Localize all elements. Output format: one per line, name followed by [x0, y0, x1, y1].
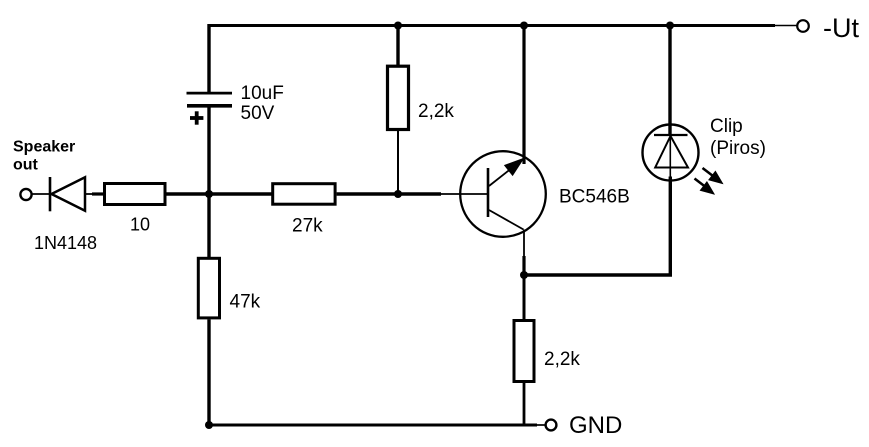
wire bottom rail to GND [209, 424, 546, 427]
svg-text:-Ut: -Ut [823, 13, 859, 43]
svg-text:2,2k: 2,2k [544, 349, 580, 370]
label GND [569, 412, 622, 439]
wire capacitor bottom lead [207, 106, 210, 194]
terminal -Ut [797, 20, 809, 32]
svg-text:Clip: Clip [710, 116, 743, 137]
node bottom-left corner dot [205, 421, 213, 429]
svg-text:BC546B: BC546B [559, 187, 630, 208]
svg-text:GND: GND [569, 412, 622, 439]
transistor Q1 BC546B [460, 151, 546, 237]
diode D1 1N4148 [50, 177, 85, 211]
resistor R2 27k [273, 184, 335, 205]
wire 47k top lead [207, 194, 210, 257]
label 1N4148 [34, 233, 97, 253]
terminal GND [546, 420, 557, 431]
value label 27k [292, 216, 323, 237]
value label 47k [230, 292, 261, 313]
svg-text:Speaker: Speaker [13, 139, 75, 156]
resistor R3 47k [198, 258, 219, 318]
svg-text:47k: 47k [230, 292, 261, 313]
wire 2,2k bottom resistor bottom lead [523, 382, 526, 426]
value label 10 [130, 215, 150, 235]
svg-text:1N4148: 1N4148 [34, 233, 97, 253]
wire 27k to transistor base [337, 192, 487, 195]
node top rail junction dot (2,2k) [394, 22, 402, 30]
wire collector lead [522, 26, 525, 165]
wire capacitor top lead [207, 24, 210, 93]
label Speaker out [13, 139, 75, 174]
node B junction dot [394, 190, 402, 198]
wire LED top lead [668, 26, 671, 136]
value label 2,2k top [418, 101, 454, 122]
label BC546B [559, 187, 630, 208]
plus sign polarity mark [190, 111, 203, 124]
wire resistor 10 to node A [167, 192, 273, 195]
svg-text:(Piros): (Piros) [710, 138, 766, 159]
label Clip (Piros) [710, 116, 766, 159]
label -Ut [823, 13, 859, 43]
wire emitter to LED branch [524, 177, 670, 276]
capacitor C1 [187, 93, 233, 106]
wire 2,2k top lead [396, 26, 399, 67]
light emission arrow 1 [703, 168, 723, 184]
value label 10uF 50V [241, 83, 284, 124]
wire 47k bottom lead [207, 319, 210, 425]
light emission arrow 2 [695, 179, 715, 195]
wire 2,2k bottom resistor top lead [523, 275, 526, 320]
node LED rail junction dot [666, 22, 674, 30]
svg-text:out: out [13, 157, 39, 174]
svg-text:50V: 50V [241, 103, 275, 124]
svg-text:10uF: 10uF [241, 83, 284, 104]
svg-text:27k: 27k [292, 216, 323, 237]
terminal speaker out [20, 189, 31, 200]
wire 2,2k bottom lead [397, 131, 399, 194]
wire top rail [209, 24, 797, 27]
wire terminal to diode [32, 193, 50, 195]
svg-text:2,2k: 2,2k [418, 101, 454, 122]
LED D2 Clip (Piros) [643, 125, 699, 181]
node emitter junction dot [520, 271, 528, 279]
svg-text:10: 10 [130, 215, 150, 235]
resistor R1 10 [105, 184, 166, 205]
node collector rail junction dot [520, 22, 528, 30]
value label 2,2k bottom [544, 349, 580, 370]
resistor R4 2,2k [388, 66, 409, 129]
wire diode to resistor 10 [85, 193, 104, 195]
resistor R5 2,2k bottom [514, 321, 534, 382]
node A junction dot [205, 190, 213, 198]
wire emitter lead [523, 230, 525, 276]
